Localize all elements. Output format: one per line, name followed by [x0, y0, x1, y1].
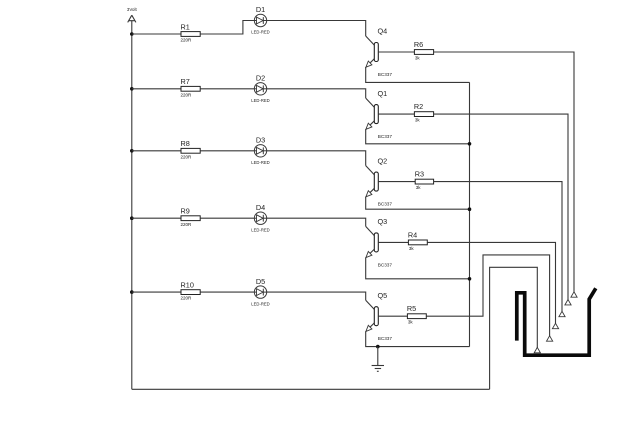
svg-text:LED-RED: LED-RED [251, 98, 269, 103]
wire: D4 to Q3 collector [267, 218, 366, 226]
svg-text:Q1: Q1 [378, 89, 388, 98]
svg-text:BC337: BC337 [378, 134, 393, 139]
svg-text:220R: 220R [181, 154, 193, 159]
resistor R5 3k [407, 304, 426, 324]
power +3Volt [127, 7, 138, 34]
svg-text:R7: R7 [181, 77, 190, 86]
resistor R7 220R [181, 77, 201, 97]
wire: bus to R9 [132, 217, 181, 219]
svg-text:LED-RED: LED-RED [251, 30, 269, 35]
wire: bus to R8 [132, 150, 181, 152]
svg-text:3k: 3k [409, 246, 415, 251]
svg-text:220R: 220R [181, 38, 193, 43]
svg-text:R1: R1 [181, 22, 190, 31]
wire: R8 to D3 [200, 150, 254, 152]
resistor R4 3k [408, 230, 427, 250]
wire: Q5 emitter to common rail [366, 331, 470, 346]
wire: Q4 base to R6 [378, 51, 414, 53]
resistor R8 220R [181, 139, 201, 159]
svg-text:R5: R5 [407, 304, 416, 313]
node: supply junction row 4 [130, 216, 134, 220]
resistor R2 3k [414, 102, 434, 122]
LED D1 LED-RED [251, 5, 269, 35]
svg-text:220R: 220R [181, 92, 193, 97]
wire: Q1 emitter to common rail [366, 129, 470, 144]
wire: R4 to probe 4 [427, 242, 555, 324]
wire: R6 to probe 1 [434, 52, 574, 292]
wire: D1 to Q4 collector [267, 21, 366, 37]
svg-text:LED-RED: LED-RED [251, 227, 269, 232]
probe: sensor electrode 3 [559, 311, 565, 316]
svg-text:3Volt: 3Volt [127, 7, 138, 12]
svg-text:R3: R3 [415, 170, 424, 179]
svg-text:R6: R6 [414, 40, 423, 49]
wire: left supply bus [131, 34, 133, 389]
svg-text:3k: 3k [416, 185, 422, 190]
probe: common electrode tip [534, 347, 540, 352]
svg-text:220R: 220R [181, 296, 193, 301]
transistor Q3 BC337 [366, 217, 393, 267]
transistor Q5 BC337 [366, 291, 393, 341]
svg-text:D4: D4 [256, 203, 265, 212]
wire: Q4 emitter to common rail [366, 67, 470, 82]
probe: sensor electrode 1 [571, 292, 577, 297]
ground [372, 347, 384, 372]
probe: sensor electrode 4 [552, 323, 558, 328]
wire: Q3 base to R4 [378, 241, 408, 243]
svg-text:R10: R10 [181, 281, 194, 290]
svg-text:LED-RED: LED-RED [251, 301, 269, 306]
resistor R3 3k [415, 170, 434, 190]
wire: D2 to Q1 collector [267, 89, 366, 98]
LED D3 LED-RED [251, 136, 269, 166]
wire: Q2 base to R3 [378, 181, 415, 183]
svg-text:BC337: BC337 [378, 336, 393, 341]
svg-text:R8: R8 [181, 139, 190, 148]
node: emitter junction Q3 [468, 277, 472, 281]
wire: Q1 base to R2 [378, 113, 414, 115]
resistor R10 220R [181, 281, 201, 301]
wire: bus to R10 [132, 291, 181, 293]
wire: bus to R1 [132, 33, 181, 35]
svg-text:R9: R9 [181, 207, 190, 216]
node: supply junction row 3 [130, 149, 134, 153]
svg-text:D2: D2 [256, 74, 265, 83]
svg-text:BC337: BC337 [378, 202, 393, 207]
wire: common probe riser [490, 267, 538, 389]
wire: bottom common [132, 388, 490, 390]
resistor R1 220R [181, 22, 201, 42]
wire: R9 to D4 [200, 217, 254, 219]
transistor Q1 BC337 [366, 89, 393, 139]
svg-text:220R: 220R [181, 222, 193, 227]
svg-text:D3: D3 [256, 136, 265, 145]
svg-text:D1: D1 [256, 5, 265, 14]
wire: Q3 emitter to common rail [366, 257, 470, 278]
svg-text:3k: 3k [415, 55, 421, 60]
node: emitter junction Q1 [468, 142, 472, 146]
wire: D5 to Q5 collector [267, 292, 366, 300]
probe: sensor electrode 2 [565, 300, 571, 305]
wire: Q5 base to R5 [378, 315, 407, 317]
node: supply junction row 2 [130, 87, 134, 91]
svg-text:Q4: Q4 [378, 27, 388, 36]
svg-text:Q2: Q2 [378, 156, 388, 165]
node: supply junction row 5 [130, 290, 134, 294]
svg-text:BC337: BC337 [378, 72, 393, 77]
svg-text:Q3: Q3 [378, 217, 388, 226]
svg-text:BC337: BC337 [378, 262, 393, 267]
LED D5 LED-RED [251, 277, 269, 307]
wire: R5 to probe 5 [426, 255, 549, 337]
resistor R9 220R [181, 207, 201, 227]
wire: R2 to probe 2 [434, 114, 568, 300]
LED D2 LED-RED [251, 74, 269, 104]
probe: sensor electrode 5 [547, 336, 553, 341]
wire: R10 to D5 [200, 291, 254, 293]
wire: common emitter bus [469, 82, 471, 346]
transistor Q2 BC337 [366, 156, 393, 206]
LED D4 LED-RED [251, 203, 269, 233]
svg-text:Q5: Q5 [378, 291, 388, 300]
node: supply junction row 1 [130, 32, 134, 36]
svg-text:D5: D5 [256, 277, 265, 286]
svg-text:3k: 3k [408, 320, 414, 325]
svg-text:R2: R2 [414, 102, 423, 111]
svg-text:3k: 3k [415, 118, 421, 123]
transistor Q4 BC337 [366, 27, 393, 77]
wire: Q2 emitter to common rail [366, 197, 470, 210]
wire: R1 to D1 [200, 21, 254, 35]
node: emitter junction Q2 [468, 207, 472, 211]
svg-text:R4: R4 [408, 230, 417, 239]
svg-text:LED-RED: LED-RED [251, 160, 269, 165]
wire: R3 to probe 3 [434, 182, 562, 312]
node: ground junction [376, 345, 380, 349]
resistor R6 3k [414, 40, 434, 60]
wire: R7 to D2 [200, 88, 254, 90]
tank: water container [517, 288, 596, 355]
wire: bus to R7 [132, 88, 181, 90]
wire: D3 to Q2 collector [267, 151, 366, 166]
